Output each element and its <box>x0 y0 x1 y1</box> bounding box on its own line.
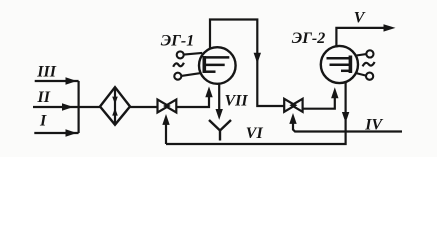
EG-2 prong bottom <box>341 70 351 73</box>
wire valve V1 to EG-1 inlet <box>176 86 212 107</box>
EG-2 AC squiggle <box>363 62 375 66</box>
EG-1 prong top <box>204 56 230 59</box>
wire stream III <box>35 80 79 82</box>
EG-2 prong top <box>327 57 352 60</box>
svg-text:IV: IV <box>364 116 383 133</box>
EG-2 prong middle <box>330 64 352 67</box>
wire VI recycle from EG-2 bottom <box>166 82 349 144</box>
wire EG-1 top bridge to valve V2 (down arrow) <box>210 20 284 107</box>
valve V2 <box>284 99 302 112</box>
wire VII vent line (down arrow) <box>216 84 223 120</box>
EG-1 connector bar <box>204 56 230 73</box>
svg-text:ЭГ-1: ЭГ-1 <box>161 32 194 49</box>
EG-2 terminal lead T1 <box>356 54 366 55</box>
filter F1 <box>100 87 130 125</box>
svg-text:VII: VII <box>225 93 249 110</box>
EG-1 terminal lead T2 <box>181 73 201 76</box>
valve V1 <box>158 100 177 113</box>
wire stream IV into valve V2 (up arrow) <box>289 113 402 132</box>
svg-text:V: V <box>354 10 366 27</box>
EG-1 terminal lead T1 <box>184 53 203 55</box>
EG-1 prong bottom <box>204 70 216 73</box>
EG-2 terminal lead T2 <box>356 73 366 76</box>
wire stream I <box>34 132 78 134</box>
svg-text:ЭГ-2: ЭГ-2 <box>292 30 325 47</box>
EG-1 terminal T2 <box>174 73 181 80</box>
apparatus EG-2 circle <box>321 46 358 83</box>
svg-text:II: II <box>37 89 51 106</box>
svg-text:III: III <box>36 63 56 80</box>
EG-1 AC squiggle <box>173 63 184 67</box>
wire VI riser into valve V1 (up arrow) <box>162 114 169 144</box>
apparatus EG-1 circle <box>199 47 236 84</box>
EG-2 terminal T2 <box>366 73 373 80</box>
wire stream II <box>33 106 79 108</box>
svg-text:VI: VI <box>246 125 264 142</box>
wire collector junction <box>77 81 79 133</box>
EG-2 connector bar <box>327 56 352 74</box>
wire stream V outlet (arrow right) <box>336 24 395 47</box>
EG-1 terminal T1 <box>177 51 184 58</box>
wire collector to filter <box>79 106 100 108</box>
vent to atmosphere <box>209 120 231 141</box>
wire valve V2 to EG-2 inlet <box>303 87 339 108</box>
wire filter to valve V1 <box>130 106 158 108</box>
svg-text:I: I <box>39 113 47 130</box>
EG-1 prong middle <box>204 64 225 67</box>
EG-2 terminal T1 <box>366 50 373 57</box>
